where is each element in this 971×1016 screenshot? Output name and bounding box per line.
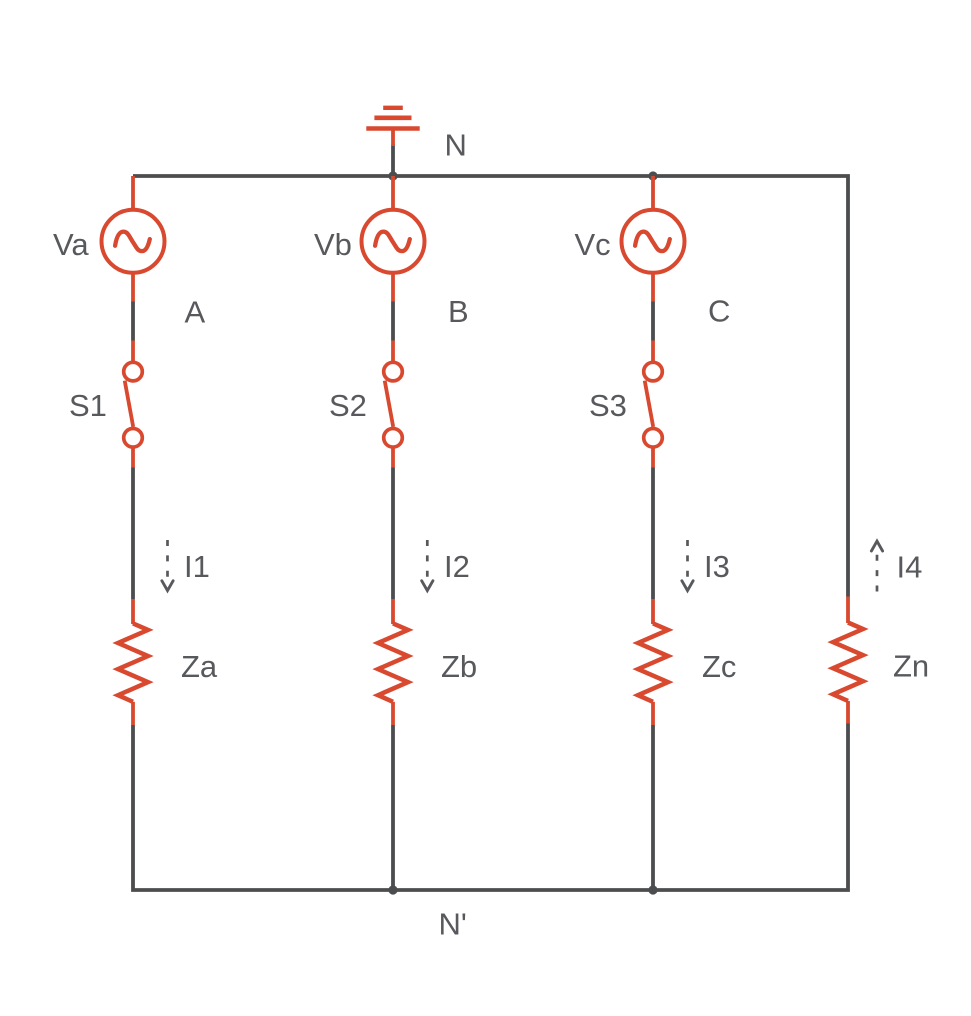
resistor Za [118, 623, 148, 701]
wire Zb lower lead [391, 702, 395, 725]
svg-text:Zn: Zn [893, 649, 929, 684]
junction node at N' / branch C [648, 885, 657, 894]
resistor Zn [833, 623, 863, 701]
switch S3 [644, 362, 663, 447]
wire top bus N and right branch vertical [133, 176, 848, 597]
wire Za lower lead [131, 702, 135, 725]
current arrow I4 (upward) [871, 541, 882, 591]
svg-text:Va: Va [53, 227, 89, 262]
ground (earth) symbol at node N [366, 108, 419, 176]
wire down to Za [131, 468, 135, 600]
wire N to Vc [651, 176, 655, 210]
voltage source Va [102, 210, 165, 273]
svg-text:S1: S1 [69, 388, 107, 423]
wire Va to node A [131, 273, 135, 302]
current arrow I3 [682, 540, 693, 591]
wire Zc to N' [651, 725, 655, 890]
svg-text:Za: Za [181, 649, 218, 684]
junction node at N / branch C [648, 171, 657, 180]
wire Zn upper lead [846, 597, 850, 624]
junction node at N' / branch B [388, 885, 397, 894]
svg-text:Zb: Zb [441, 649, 477, 684]
switch S1 [124, 362, 143, 447]
wire node B to S2 [391, 341, 395, 364]
resistor Zc [638, 623, 668, 701]
resistor Zb [378, 623, 408, 701]
wire Zb upper lead [391, 599, 395, 624]
svg-text:I3: I3 [704, 549, 730, 584]
wire Zb to N' [391, 725, 395, 890]
wire down to Zc [651, 468, 655, 600]
wire Vb to node B [391, 273, 395, 302]
svg-text:C: C [708, 294, 730, 329]
voltage source Vc [622, 210, 685, 273]
current arrow I2 [422, 540, 433, 591]
wire N to Va [131, 176, 135, 210]
wire Vc to node C [651, 273, 655, 302]
wire Za upper lead [131, 599, 135, 624]
svg-text:N: N [445, 128, 467, 163]
junction node at N / branch B [388, 171, 397, 180]
svg-text:Vb: Vb [314, 227, 352, 262]
svg-text:I4: I4 [897, 550, 923, 585]
wire Zc lower lead [651, 702, 655, 725]
wire S1 lower lead [131, 448, 135, 468]
svg-text:S3: S3 [589, 388, 627, 423]
wire Zc upper lead [651, 599, 655, 624]
switch S2 [384, 362, 403, 447]
wire down to Zb [391, 468, 395, 600]
svg-text:A: A [185, 295, 206, 330]
wire bottom bus N' [133, 724, 848, 891]
svg-text:I1: I1 [184, 549, 210, 584]
node B wire segment [391, 302, 395, 341]
wire node C to S3 [651, 341, 655, 364]
wire S3 lower lead [651, 448, 655, 468]
svg-text:Vc: Vc [575, 227, 611, 262]
wire Zn lower lead [846, 701, 850, 724]
wire node A to S1 [131, 341, 135, 364]
wire S2 lower lead [391, 448, 395, 468]
svg-text:N': N' [439, 907, 467, 942]
node A wire segment [131, 302, 135, 341]
svg-text:I2: I2 [444, 549, 470, 584]
voltage source Vb [362, 210, 425, 273]
node C wire segment [651, 302, 655, 341]
wire N to Vb [391, 176, 395, 210]
svg-text:B: B [448, 294, 469, 329]
svg-text:S2: S2 [329, 388, 367, 423]
svg-text:Zc: Zc [702, 649, 736, 684]
current arrow I1 [162, 540, 173, 591]
